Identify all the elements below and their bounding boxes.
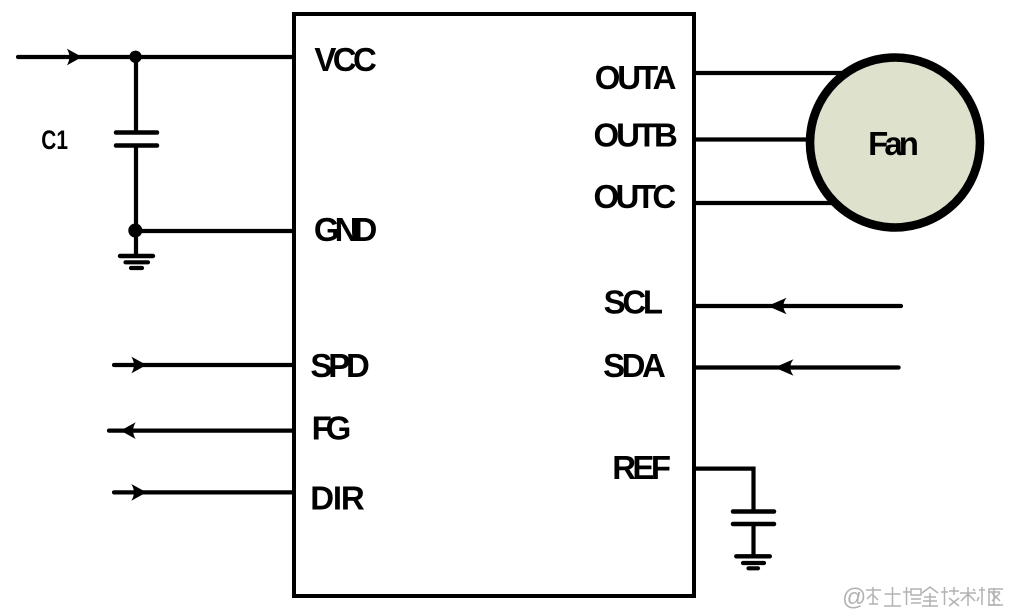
svg-text:VCC: VCC <box>314 41 376 78</box>
svg-text:FG: FG <box>312 409 352 446</box>
svg-text:OUTC: OUTC <box>594 178 677 215</box>
svg-text:SPD: SPD <box>310 347 370 384</box>
svg-text:OUTB: OUTB <box>594 117 678 154</box>
svg-text:SCL: SCL <box>604 283 664 320</box>
svg-text:SDA: SDA <box>603 347 666 384</box>
svg-text:C1: C1 <box>41 125 68 155</box>
svg-text:REF: REF <box>612 449 671 486</box>
svg-text:GND: GND <box>314 211 377 248</box>
svg-text:@: @ <box>842 584 866 611</box>
svg-text:Fan: Fan <box>868 125 919 162</box>
svg-text:OUTA: OUTA <box>595 59 677 96</box>
svg-text:DIR: DIR <box>310 480 365 517</box>
